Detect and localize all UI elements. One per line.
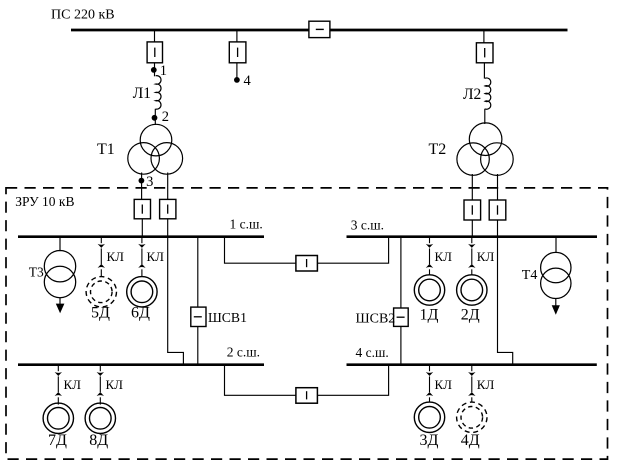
feeder 4Д cable (КЛ): [468, 366, 494, 402]
wire: T4 outgoing arrow: [552, 298, 560, 314]
wire: ШСВ1 bus coupler line: [197, 238, 199, 364]
wire: bus 3 to transformer T4: [555, 238, 557, 253]
wire: bus to breaker Q4: [236, 30, 238, 42]
svg-text:КЛ: КЛ: [106, 377, 124, 392]
svg-text:Л2: Л2: [463, 86, 481, 103]
bus 4 (4 с.ш.): [347, 345, 597, 365]
wire: T1 right lead down: [167, 173, 169, 200]
svg-text:1 с.ш.: 1 с.ш.: [230, 216, 263, 231]
breaker QF4 (T2 lead 2, 10kV): [489, 200, 506, 220]
feeder 2Д cable (КЛ): [468, 238, 494, 275]
svg-text:Т2: Т2: [429, 141, 447, 158]
svg-text:Л1: Л1: [133, 85, 151, 102]
wire: T2 lead 2 down: [497, 174, 499, 200]
svg-text:7Д: 7Д: [48, 432, 67, 449]
node 2: [152, 109, 169, 125]
wire: bus to breaker Q1: [154, 30, 156, 42]
svg-text:3 с.ш.: 3 с.ш.: [351, 218, 384, 233]
svg-text:Т4: Т4: [522, 268, 538, 283]
svg-text:5Д: 5Д: [91, 305, 110, 322]
svg-text:КЛ: КЛ: [435, 249, 453, 264]
breaker QF2 (T1 lead 2, 10kV): [160, 199, 176, 218]
wire: T2 lead 2 pass-through to bus 4: [498, 220, 513, 364]
svg-text:Т1: Т1: [97, 141, 115, 158]
svg-text:4 с.ш.: 4 с.ш.: [356, 345, 389, 360]
svg-text:4Д: 4Д: [461, 432, 480, 449]
svg-text:6Д: 6Д: [131, 305, 150, 322]
wire: ШСВ2 bus coupler line: [400, 238, 402, 364]
svg-text:Т3: Т3: [29, 265, 44, 280]
breaker: upper bus tie: [296, 256, 318, 272]
svg-text:КЛ: КЛ: [64, 377, 82, 392]
breaker QF1 (T1 lead 1, 10kV): [134, 199, 150, 218]
svg-text:3: 3: [146, 174, 153, 190]
node 1: [151, 63, 167, 79]
svg-text:КЛ: КЛ: [107, 249, 125, 264]
wire: bus 1 to upper tie: [225, 238, 296, 263]
node 4: [234, 73, 252, 89]
breaker ШСВ2: [356, 308, 409, 327]
breaker Q4: [229, 42, 246, 63]
motor 1Д: [414, 275, 444, 324]
feeder 5Д cable (КЛ): [98, 238, 125, 277]
breaker Q2: [476, 43, 493, 63]
bus 1 (1 с.ш.): [18, 216, 264, 236]
wire: T1 left lead down: [141, 173, 143, 200]
wire: Q2 to reactor L2: [483, 63, 485, 79]
svg-text:ЗРУ 10 кВ: ЗРУ 10 кВ: [15, 194, 74, 209]
enclosure: ЗРУ 10 кВ dashed boundary: [6, 188, 608, 459]
svg-text:1Д: 1Д: [420, 307, 439, 324]
svg-text:КЛ: КЛ: [477, 249, 495, 264]
feeder 6Д cable (КЛ): [138, 238, 164, 277]
svg-text:2 с.ш.: 2 с.ш.: [227, 345, 260, 360]
breaker QS top bus sectionalizer: [309, 21, 330, 37]
feeder 1Д cable (КЛ): [426, 238, 452, 275]
wire: QF1 to bus 1: [141, 219, 143, 237]
svg-text:1: 1: [160, 63, 167, 79]
wire: QF3 to bus 3: [471, 220, 473, 237]
wire: upper tie to bus 3: [317, 238, 388, 263]
svg-text:2: 2: [162, 109, 169, 125]
wire: reactor to node 2: [154, 109, 156, 125]
svg-text:8Д: 8Д: [89, 432, 108, 449]
wire: T1 lead 2 pass-through to bus 2: [168, 219, 184, 364]
breaker Q1: [147, 42, 162, 63]
motor 5Д (future, dashed): [86, 277, 116, 322]
wire: 220kV bus right segment: [330, 29, 568, 32]
svg-text:КЛ: КЛ: [477, 377, 495, 392]
svg-text:ШСВ2: ШСВ2: [356, 312, 396, 327]
transformer T2 (Т2): [429, 123, 514, 176]
wire: T2 lead 1 down: [471, 174, 473, 200]
wire: Q4 stub to node 4: [236, 63, 238, 80]
wire: 220kV bus left segment: [71, 29, 310, 32]
svg-text:ПС 220 кВ: ПС 220 кВ: [51, 8, 115, 23]
svg-text:2Д: 2Д: [461, 307, 480, 324]
feeder 8Д cable (КЛ): [97, 366, 124, 405]
motor 8Д: [85, 403, 115, 449]
feeder 3Д cable (КЛ): [426, 366, 452, 402]
node 3: [139, 174, 154, 190]
transformer T1 (Т1): [97, 124, 183, 174]
wire: reactor L2 to T2: [484, 109, 486, 124]
bus 3 (3 с.ш.): [347, 218, 598, 237]
motor 3Д: [414, 402, 444, 449]
svg-text:ШСВ1: ШСВ1: [208, 310, 247, 325]
svg-text:3Д: 3Д: [420, 432, 439, 449]
reactor L2 (Л2): [463, 78, 491, 109]
motor 4Д (future, dashed): [457, 402, 487, 449]
motor 7Д: [43, 403, 73, 449]
wire: bus 2 to lower tie: [225, 366, 296, 395]
wire: Q1 to reactor: [154, 63, 156, 77]
reactor L1 (Л1): [133, 76, 161, 110]
svg-text:КЛ: КЛ: [435, 377, 453, 392]
breaker: lower bus tie: [296, 388, 318, 404]
svg-text:КЛ: КЛ: [147, 249, 165, 264]
breaker ШСВ1: [191, 307, 247, 326]
transformer T4 (Т4): [522, 252, 571, 298]
svg-text:4: 4: [244, 73, 252, 89]
breaker QF3 (T2 lead 1, 10kV): [464, 200, 481, 220]
feeder 7Д cable (КЛ): [55, 366, 82, 405]
wire: T3 outgoing arrow: [56, 298, 65, 314]
motor 6Д: [127, 277, 157, 322]
wire: lower tie to bus 4: [317, 366, 388, 395]
motor 2Д: [457, 275, 487, 324]
wire: bus 1 to transformer T3: [59, 238, 61, 251]
wire: bus to breaker Q2: [483, 30, 485, 43]
transformer T3 (Т3): [29, 251, 76, 298]
bus 2 (2 с.ш.): [18, 345, 264, 365]
